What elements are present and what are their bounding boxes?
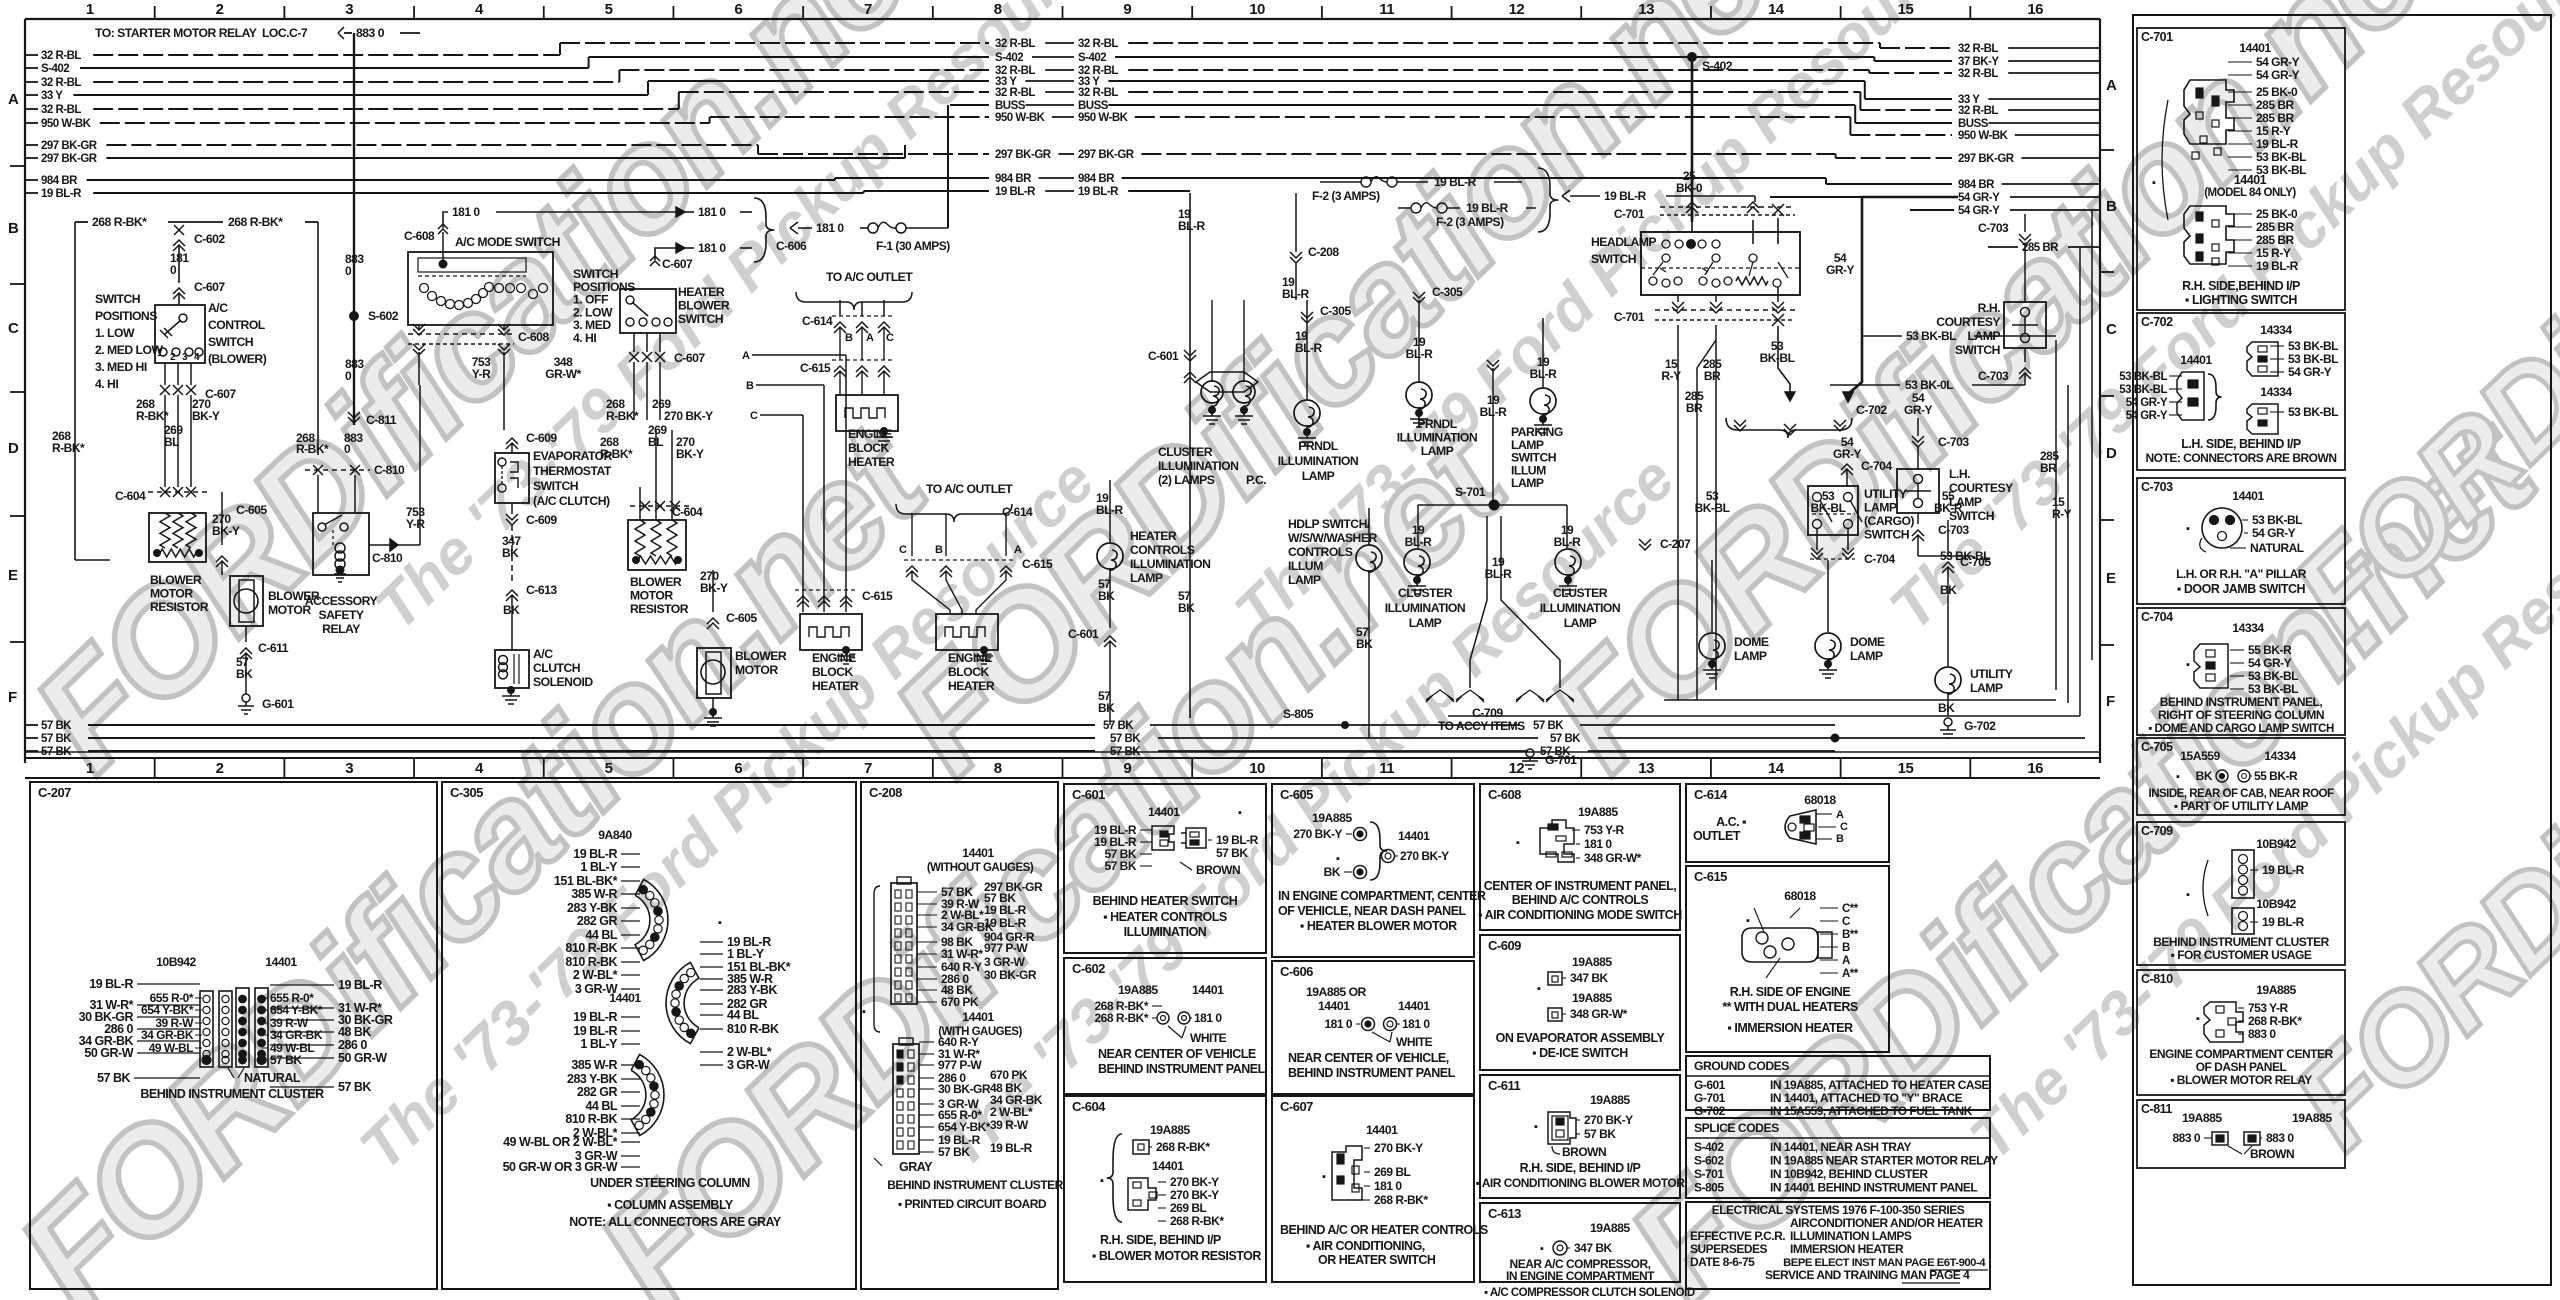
svg-text:57 BK: 57 BK <box>1584 1127 1616 1141</box>
svg-text:C-305: C-305 <box>1432 285 1463 299</box>
connector C-701 dashed row lower <box>1614 287 1795 326</box>
svg-text:C-615: C-615 <box>1022 557 1053 571</box>
svg-text:810 R-BK: 810 R-BK <box>727 1022 779 1036</box>
wire bus 32 R-BL <box>25 65 2100 89</box>
svg-text:HEATER: HEATER <box>848 455 895 469</box>
svg-text:883 0: 883 0 <box>356 26 385 40</box>
svg-text:▪ BLOWER MOTOR RELAY: ▪ BLOWER MOTOR RELAY <box>2170 1073 2312 1087</box>
svg-text:19 BL-R: 19 BL-R <box>1466 201 1509 215</box>
svg-text:▪: ▪ <box>2196 1013 2200 1025</box>
wire bus 984 BR <box>25 173 2100 191</box>
svg-text:SWITCH: SWITCH <box>533 479 578 493</box>
wire 54 GR-Y right stubs <box>1770 192 2100 254</box>
connector box C-703 <box>2137 478 2345 604</box>
svg-text:R.H. SIDE, BEHIND I/P: R.H. SIDE, BEHIND I/P <box>1520 1161 1641 1175</box>
svg-text:53 BK-BL: 53 BK-BL <box>2252 513 2302 527</box>
svg-text:WHITE: WHITE <box>1190 1031 1227 1045</box>
svg-text:G-702: G-702 <box>1694 1104 1726 1118</box>
svg-text:9: 9 <box>1123 1 1131 18</box>
svg-text:950 W-BK: 950 W-BK <box>995 112 1046 124</box>
svg-text:14334: 14334 <box>2264 749 2296 763</box>
svg-text:C: C <box>8 320 19 337</box>
svg-text:10: 10 <box>1249 760 1265 777</box>
connector C-604 dashed row 2 <box>630 501 703 519</box>
svg-text:▪: ▪ <box>718 917 722 929</box>
svg-text:BROWN: BROWN <box>1196 863 1240 877</box>
svg-text:ENGINE COMPARTMENT CENTER: ENGINE COMPARTMENT CENTER <box>2149 1047 2333 1061</box>
svg-text:883 0: 883 0 <box>2248 1027 2276 1041</box>
svg-text:GR-Y: GR-Y <box>1833 447 1861 461</box>
svg-text:32 R-BL: 32 R-BL <box>995 38 1035 50</box>
svg-text:3. MED HI: 3. MED HI <box>95 360 147 374</box>
svg-text:B: B <box>746 380 754 392</box>
svg-text:950 W-BK: 950 W-BK <box>1078 112 1129 124</box>
svg-text:54 GR-Y: 54 GR-Y <box>2288 365 2332 379</box>
svg-text:C-601: C-601 <box>1148 349 1179 363</box>
svg-text:POSITIONS: POSITIONS <box>95 309 157 323</box>
svg-text:BR: BR <box>1686 401 1703 415</box>
connector C-608 dashed row below <box>408 324 582 430</box>
svg-text:R.H. SIDE, BEHIND I/P: R.H. SIDE, BEHIND I/P <box>1100 1233 1221 1247</box>
svg-text:19 BL-R: 19 BL-R <box>2262 863 2305 877</box>
splice S-402 drop wire <box>1676 52 1733 222</box>
svg-text:BL-R: BL-R <box>1405 535 1432 549</box>
svg-text:19 BL-R: 19 BL-R <box>338 978 382 992</box>
svg-text:ILLUMINATION LAMPS: ILLUMINATION LAMPS <box>1790 1229 1912 1243</box>
svg-text:ILLUMINATION: ILLUMINATION <box>1540 601 1620 615</box>
svg-text:C: C <box>1842 916 1850 928</box>
svg-text:44 BL: 44 BL <box>585 928 617 942</box>
svg-text:14401: 14401 <box>1398 829 1430 843</box>
svg-text:B: B <box>845 332 853 344</box>
motor blower motor M1 <box>230 576 320 714</box>
svg-text:53 BK-BL: 53 BK-BL <box>2288 405 2338 419</box>
svg-text:53 BK-BL: 53 BK-BL <box>2256 150 2306 164</box>
svg-text:57 BK: 57 BK <box>1110 746 1141 758</box>
svg-text:SUPERSEDES: SUPERSEDES <box>1690 1242 1768 1256</box>
wires below headlamp switch <box>1661 325 2056 700</box>
svg-text:SAFETY: SAFETY <box>318 608 363 622</box>
svg-text:151 BL-BK*: 151 BL-BK* <box>554 874 618 888</box>
svg-text:15A559: 15A559 <box>2180 749 2220 763</box>
svg-text:181 0: 181 0 <box>1402 1017 1430 1031</box>
svg-text:IN 14401 BEHIND INSTRUMENT PAN: IN 14401 BEHIND INSTRUMENT PANEL <box>1770 1181 1977 1195</box>
svg-text:33 Y: 33 Y <box>41 90 63 102</box>
connector detail box C-208 <box>861 782 1064 1289</box>
svg-text:PRNDL: PRNDL <box>1417 417 1458 431</box>
lamp cluster illumination right <box>1540 549 1620 630</box>
svg-text:BK-0: BK-0 <box>1676 181 1703 195</box>
svg-text:4. HI: 4. HI <box>573 331 596 345</box>
svg-text:C-608: C-608 <box>518 330 549 344</box>
svg-text:▪: ▪ <box>2186 659 2190 671</box>
fuse F-2 3 AMPS pair <box>1312 168 1755 232</box>
svg-text:282 GR: 282 GR <box>577 914 618 928</box>
svg-text:R-BK*: R-BK* <box>606 409 639 423</box>
connector detail box C-604 <box>1064 1096 1266 1282</box>
svg-text:3: 3 <box>345 1 353 18</box>
svg-text:C-704: C-704 <box>1864 552 1895 566</box>
svg-text:57 BK: 57 BK <box>97 1071 130 1085</box>
connector C-208 chevron <box>1282 193 1339 301</box>
svg-text:BLOWER: BLOWER <box>630 575 682 589</box>
svg-text:54 GR-Y: 54 GR-Y <box>2248 656 2292 670</box>
svg-text:19A885: 19A885 <box>1118 983 1158 997</box>
svg-text:LAMP: LAMP <box>1850 649 1883 663</box>
heater engine block heater 1 <box>836 395 898 469</box>
connector box C-810 <box>2137 970 2345 1095</box>
svg-text:BK: BK <box>2196 769 2213 783</box>
svg-text:ON EVAPORATOR ASSEMBLY: ON EVAPORATOR ASSEMBLY <box>1496 1031 1666 1045</box>
svg-text:181 0: 181 0 <box>698 241 726 255</box>
svg-text:B: B <box>1836 833 1844 845</box>
svg-text:SWITCH: SWITCH <box>1591 252 1636 266</box>
svg-text:670 PK: 670 PK <box>941 995 979 1009</box>
svg-text:▪: ▪ <box>2186 523 2190 535</box>
lamp utility lamp <box>1934 489 2013 738</box>
svg-text:C-604: C-604 <box>1072 1099 1106 1114</box>
svg-text:268 R-BK*: 268 R-BK* <box>92 215 147 229</box>
svg-text:15: 15 <box>1898 1 1914 18</box>
svg-text:654 Y-BK*: 654 Y-BK* <box>141 1003 194 1017</box>
wire bus 32 R-BL <box>25 87 2100 117</box>
svg-text:ACCESSORY: ACCESSORY <box>305 594 378 608</box>
svg-text:TO A/C OUTLET: TO A/C OUTLET <box>826 270 913 284</box>
svg-text:SWITCH: SWITCH <box>1864 528 1909 542</box>
svg-text:E: E <box>2106 570 2116 587</box>
svg-text:F-2 (3 AMPS): F-2 (3 AMPS) <box>1436 215 1504 229</box>
svg-text:OF VEHICLE, NEAR DASH PANEL: OF VEHICLE, NEAR DASH PANEL <box>1278 904 1467 918</box>
svg-text:C-601: C-601 <box>1072 787 1105 802</box>
svg-text:BK-BL: BK-BL <box>1811 501 1846 515</box>
svg-text:DOME: DOME <box>1734 635 1769 649</box>
svg-text:C-615: C-615 <box>862 589 893 603</box>
svg-text:S-402: S-402 <box>1702 59 1733 73</box>
svg-text:C-604: C-604 <box>115 489 146 503</box>
svg-text:C-606: C-606 <box>776 239 807 253</box>
wire bus BUSS <box>950 100 2100 130</box>
svg-text:4: 4 <box>475 760 484 777</box>
svg-text:▪ PRINTED CIRCUIT BOARD: ▪ PRINTED CIRCUIT BOARD <box>898 1197 1047 1211</box>
svg-text:181 0: 181 0 <box>698 205 726 219</box>
svg-text:▪: ▪ <box>1540 1243 1544 1255</box>
svg-text:SPLICE CODES: SPLICE CODES <box>1694 1121 1779 1135</box>
svg-text:14401: 14401 <box>2239 41 2271 55</box>
connector box C-701 <box>2137 28 2345 310</box>
svg-text:34 GR-BK: 34 GR-BK <box>141 1028 194 1042</box>
connector detail box C-305 <box>442 782 856 1289</box>
svg-text:14401: 14401 <box>962 1010 994 1024</box>
svg-text:57 BK: 57 BK <box>41 746 72 758</box>
svg-text:BK-Y: BK-Y <box>192 409 220 423</box>
wire 268 R-BK* top left bracket <box>52 215 318 560</box>
svg-text:S-602: S-602 <box>368 309 399 323</box>
connector C-607 chevrons below switch <box>136 363 236 487</box>
svg-text:BK: BK <box>502 546 519 560</box>
svg-text:BEHIND INSTRUMENT PANEL: BEHIND INSTRUMENT PANEL <box>1098 1062 1266 1076</box>
svg-text:C-810: C-810 <box>374 463 405 477</box>
svg-text:C-207: C-207 <box>1660 537 1691 551</box>
svg-text:53 BK-0L: 53 BK-0L <box>1905 378 1953 392</box>
svg-text:SWITCH: SWITCH <box>208 335 253 349</box>
svg-text:14334: 14334 <box>2232 621 2264 635</box>
svg-text:S-402: S-402 <box>995 52 1023 64</box>
svg-text:57 BK: 57 BK <box>1104 859 1136 873</box>
svg-text:57 BK: 57 BK <box>1110 733 1141 745</box>
svg-text:9A840: 9A840 <box>598 828 632 842</box>
svg-text:0: 0 <box>344 442 351 456</box>
bottom ruler ticks and numbers <box>86 758 2043 778</box>
svg-text:14: 14 <box>1768 1 1785 18</box>
svg-text:C-208: C-208 <box>1308 245 1339 259</box>
svg-text:BK-BL: BK-BL <box>1695 501 1730 515</box>
svg-text:BK: BK <box>503 603 520 617</box>
svg-text:A/C MODE SWITCH: A/C MODE SWITCH <box>455 235 560 249</box>
svg-text:2: 2 <box>216 1 224 18</box>
svg-text:BEHIND INSTRUMENT CLUSTER: BEHIND INSTRUMENT CLUSTER <box>140 1087 324 1101</box>
connector detail box C-606 <box>1272 961 1474 1094</box>
svg-text:37 BK-Y: 37 BK-Y <box>1958 56 1999 68</box>
connector C-607 chevron upper <box>173 280 225 305</box>
svg-text:F-1 (30 AMPS): F-1 (30 AMPS) <box>876 239 950 253</box>
svg-text:(2) LAMPS: (2) LAMPS <box>1158 473 1215 487</box>
svg-text:SWITCH: SWITCH <box>1949 509 1994 523</box>
svg-text:BEHIND HEATER SWITCH: BEHIND HEATER SWITCH <box>1093 894 1238 908</box>
wire bus 33 Y <box>25 76 2100 106</box>
svg-text:0: 0 <box>345 264 352 278</box>
svg-text:▪: ▪ <box>1746 915 1750 927</box>
svg-text:S-402: S-402 <box>1078 52 1106 64</box>
svg-text:BR: BR <box>1704 369 1721 383</box>
connector detail box C-609 <box>1480 935 1680 1070</box>
svg-text:C-709: C-709 <box>2141 824 2173 838</box>
svg-text:32 R-BL: 32 R-BL <box>1078 38 1118 50</box>
svg-text:G-702: G-702 <box>1964 719 1996 733</box>
svg-text:BL-R: BL-R <box>1554 535 1581 549</box>
svg-text:HEATER: HEATER <box>812 679 859 693</box>
svg-text:15 R-Y: 15 R-Y <box>2256 124 2291 138</box>
svg-text:268 R-BK*: 268 R-BK* <box>1374 1193 1428 1207</box>
svg-text:19 BL-R: 19 BL-R <box>995 186 1036 198</box>
svg-text:C-701: C-701 <box>2141 30 2173 44</box>
svg-text:268 R-BK*: 268 R-BK* <box>2248 1014 2302 1028</box>
connector detail box C-607 <box>1272 1096 1488 1282</box>
svg-text:▪ BLOWER MOTOR RESISTOR: ▪ BLOWER MOTOR RESISTOR <box>1092 1249 1261 1263</box>
svg-text:385 W-R: 385 W-R <box>571 887 617 901</box>
svg-text:(A/C CLUTCH): (A/C CLUTCH) <box>533 494 610 508</box>
svg-text:GRAY: GRAY <box>899 1160 933 1174</box>
svg-text:B: B <box>935 544 943 556</box>
svg-text:19 BL-R: 19 BL-R <box>1434 175 1477 189</box>
svg-text:347 BK: 347 BK <box>1570 971 1609 985</box>
svg-text:BK: BK <box>1356 637 1373 651</box>
svg-text:19 BL-R: 19 BL-R <box>573 1010 617 1024</box>
svg-text:BL-R: BL-R <box>1406 347 1433 361</box>
svg-text:BK: BK <box>1938 701 1955 715</box>
svg-text:14401: 14401 <box>962 846 994 860</box>
svg-text:3 GR-W: 3 GR-W <box>727 1058 770 1072</box>
svg-text:C-810: C-810 <box>2141 972 2173 986</box>
svg-text:TO: STARTER MOTOR RELAY LOC.C: TO: STARTER MOTOR RELAY LOC.C-7 <box>95 26 308 40</box>
svg-text:IN 14401, ATTACHED TO "Y" BRAC: IN 14401, ATTACHED TO "Y" BRACE <box>1770 1091 1963 1105</box>
svg-text:BL: BL <box>648 435 663 449</box>
svg-text:LAMP: LAMP <box>1864 501 1897 515</box>
svg-text:IMMERSION HEATER: IMMERSION HEATER <box>1790 1242 1904 1256</box>
svg-text:39 R-W: 39 R-W <box>990 1118 1029 1132</box>
svg-text:270 BK-Y: 270 BK-Y <box>1293 827 1342 841</box>
svg-text:BUSS: BUSS <box>1078 100 1109 112</box>
svg-text:CENTER OF INSTRUMENT PANEL,: CENTER OF INSTRUMENT PANEL, <box>1484 879 1677 893</box>
svg-text:283 Y-BK: 283 Y-BK <box>567 901 617 915</box>
connector box C-709 <box>2137 822 2345 965</box>
svg-text:19A885: 19A885 <box>1312 811 1352 825</box>
svg-text:297 BK-GR: 297 BK-GR <box>1078 149 1135 161</box>
wire 181 0 pair to C-606 <box>438 198 868 271</box>
svg-text:0: 0 <box>345 369 352 383</box>
label switch positions A/C control <box>95 292 163 391</box>
svg-text:30 BK-GR: 30 BK-GR <box>984 968 1037 982</box>
svg-text:C-609: C-609 <box>1488 938 1521 953</box>
svg-text:▪ A/C COMPRESSOR CLUTCH SOLENO: ▪ A/C COMPRESSOR CLUTCH SOLENOID <box>1484 1287 1695 1299</box>
connector detail box C-613 <box>1480 1203 1680 1283</box>
svg-text:P.C.: P.C. <box>1246 473 1266 487</box>
label TO A/C OUTLET 1 <box>796 270 913 395</box>
svg-text:RESISTOR: RESISTOR <box>630 602 689 616</box>
svg-text:44 BL: 44 BL <box>585 1099 617 1113</box>
svg-text:BEHIND INSTRUMENT CLUSTER: BEHIND INSTRUMENT CLUSTER <box>2153 935 2329 949</box>
svg-text:C-607: C-607 <box>662 257 693 271</box>
svg-text:1 BL-Y: 1 BL-Y <box>580 860 618 874</box>
svg-text:▪: ▪ <box>1537 983 1541 995</box>
svg-text:LAMP: LAMP <box>1302 469 1335 483</box>
svg-text:W/S/W/WASHER: W/S/W/WASHER <box>1288 531 1377 545</box>
svg-text:RELAY: RELAY <box>322 622 360 636</box>
svg-text:54 GR-Y: 54 GR-Y <box>2256 55 2300 69</box>
svg-text:57 BK: 57 BK <box>41 733 72 745</box>
svg-text:19 BL-R: 19 BL-R <box>573 847 617 861</box>
svg-text:BL: BL <box>164 435 179 449</box>
svg-text:19 BL-R: 19 BL-R <box>1216 833 1259 847</box>
label accessory safety relay <box>305 594 378 636</box>
svg-text:BK: BK <box>236 667 253 681</box>
svg-text:950 W-BK: 950 W-BK <box>41 118 92 130</box>
svg-text:G-601: G-601 <box>1694 1078 1726 1092</box>
svg-text:19 BL-R: 19 BL-R <box>990 1141 1033 1155</box>
svg-text:L.H. OR R.H. "A" PILLAR: L.H. OR R.H. "A" PILLAR <box>2176 567 2307 581</box>
svg-text:49 W-BL OR 2 W-BL*: 49 W-BL OR 2 W-BL* <box>503 1135 618 1149</box>
svg-text:270 BK-Y: 270 BK-Y <box>1400 849 1449 863</box>
svg-text:C-608: C-608 <box>404 229 435 243</box>
svg-text:13: 13 <box>1638 760 1654 777</box>
switch L.H. courtesy lamp switch <box>1756 391 2013 563</box>
row letters left side <box>8 91 25 706</box>
svg-text:285 BR: 285 BR <box>2256 98 2295 112</box>
svg-text:0: 0 <box>170 263 177 277</box>
svg-text:D: D <box>2106 445 2117 462</box>
svg-text:R-Y: R-Y <box>1661 369 1681 383</box>
svg-text:COURTESY: COURTESY <box>1936 315 2000 329</box>
svg-text:EFFECTIVE P.C.R.: EFFECTIVE P.C.R. <box>1690 1229 1785 1243</box>
svg-text:▪ HEATER BLOWER MOTOR: ▪ HEATER BLOWER MOTOR <box>1300 919 1457 933</box>
svg-text:BK: BK <box>1098 701 1115 715</box>
svg-text:(WITHOUT GAUGES): (WITHOUT GAUGES) <box>927 862 1034 874</box>
svg-text:19 BL-R: 19 BL-R <box>984 903 1027 917</box>
svg-text:HDLP SWITCH/: HDLP SWITCH/ <box>1288 517 1371 531</box>
svg-text:19A885: 19A885 <box>1590 1221 1630 1235</box>
svg-text:C: C <box>899 544 907 556</box>
label TO: STARTER MOTOR RELAY <box>95 26 420 40</box>
svg-text:A**: A** <box>1842 968 1859 980</box>
svg-text:▪ HEATER CONTROLS: ▪ HEATER CONTROLS <box>1103 910 1227 924</box>
svg-text:14334: 14334 <box>2260 323 2292 337</box>
svg-text:UTILITY: UTILITY <box>1970 667 2013 681</box>
svg-text:53 BK-BL: 53 BK-BL <box>1906 329 1956 343</box>
svg-text:GR-Y: GR-Y <box>1826 263 1854 277</box>
wire 54 GR-Y heavy drop <box>1826 197 1958 402</box>
lamp HDLP switch illum <box>1288 508 1382 738</box>
svg-text:54 GR-Y: 54 GR-Y <box>1958 192 2000 204</box>
lamp cluster illumination 2 lamps <box>1158 300 1266 487</box>
svg-text:14334: 14334 <box>2260 385 2292 399</box>
svg-text:R-BK*: R-BK* <box>52 441 85 455</box>
svg-text:C-703: C-703 <box>2141 480 2173 494</box>
svg-text:F: F <box>8 689 17 706</box>
svg-text:19A885: 19A885 <box>1150 1123 1190 1137</box>
svg-text:C-709: C-709 <box>1472 706 1503 720</box>
svg-text:BEHIND INSTRUMENT PANEL,: BEHIND INSTRUMENT PANEL, <box>2160 695 2323 709</box>
svg-text:19 BL-R: 19 BL-R <box>89 977 133 991</box>
svg-text:RESISTOR: RESISTOR <box>150 600 209 614</box>
svg-text:50 GR-W: 50 GR-W <box>338 1051 387 1065</box>
svg-text:GR-Y: GR-Y <box>1904 403 1932 417</box>
svg-text:19 BL-R: 19 BL-R <box>2256 259 2299 273</box>
svg-text:32 R-BL: 32 R-BL <box>41 77 81 89</box>
svg-text:C-705: C-705 <box>2141 740 2173 754</box>
svg-text:▪ DOME AND CARGO LAMP SWITCH: ▪ DOME AND CARGO LAMP SWITCH <box>2148 723 2334 735</box>
svg-text:283 Y-BK: 283 Y-BK <box>567 1072 617 1086</box>
svg-text:▪ DOOR JAMB SWITCH: ▪ DOOR JAMB SWITCH <box>2177 582 2306 596</box>
connector C-810 dashed row upper <box>296 431 405 513</box>
lamp dome lamp 2 <box>1811 489 1885 678</box>
svg-text:▪: ▪ <box>1534 1121 1538 1133</box>
lamp heater controls illumination <box>1068 480 1210 725</box>
svg-text:53 BK-BL: 53 BK-BL <box>2119 384 2167 396</box>
svg-text:54 GR-Y: 54 GR-Y <box>2126 397 2168 409</box>
solenoid A/C clutch <box>495 647 593 704</box>
svg-text:25 BK-0: 25 BK-0 <box>2256 85 2298 99</box>
row letters right side <box>2100 77 2117 710</box>
svg-text:ILLUMINATION: ILLUMINATION <box>1397 431 1477 445</box>
svg-text:14401: 14401 <box>1398 999 1430 1013</box>
resistor blower motor resistor R2 <box>148 430 686 570</box>
svg-text:L.H. SIDE, BEHIND I/P: L.H. SIDE, BEHIND I/P <box>2181 437 2301 451</box>
svg-text:34 GR-BK: 34 GR-BK <box>270 1028 323 1042</box>
label TO A/C OUTLET 2 <box>896 482 1053 614</box>
svg-text:D: D <box>8 440 19 457</box>
svg-text:C-701: C-701 <box>1614 207 1645 221</box>
svg-text:C-601: C-601 <box>1068 627 1099 641</box>
svg-text:54 GR-Y: 54 GR-Y <box>2252 526 2296 540</box>
svg-text:ILLUMINATION: ILLUMINATION <box>1130 557 1210 571</box>
connector box C-702 <box>2119 313 2345 470</box>
svg-text:348 GR-W*: 348 GR-W* <box>1584 851 1642 865</box>
switch evaporator thermostat <box>495 431 613 650</box>
svg-text:4. HI: 4. HI <box>95 377 118 391</box>
svg-text:B: B <box>8 220 19 237</box>
svg-text:10B942: 10B942 <box>2256 897 2296 911</box>
svg-text:13: 13 <box>1638 1 1654 18</box>
switch heater blower switch <box>620 285 730 333</box>
